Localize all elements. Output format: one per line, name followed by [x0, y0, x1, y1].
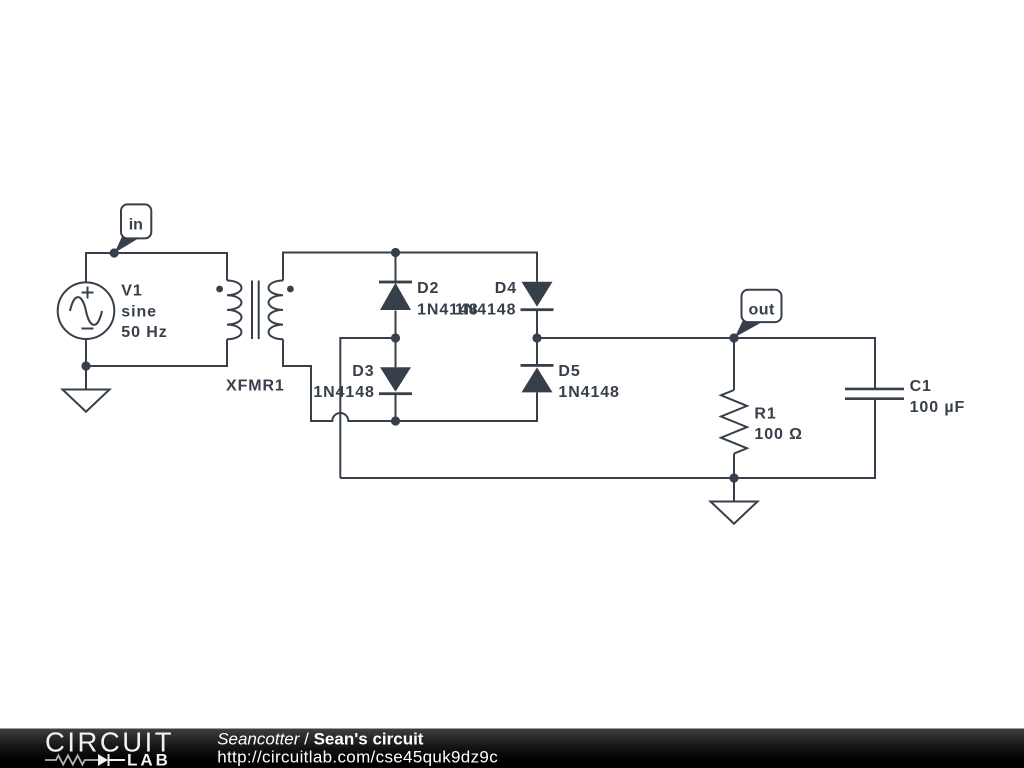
wire: D2 top stub	[395, 253, 397, 282]
net flag box: out	[742, 290, 782, 322]
node dot: D3 bottom rail	[391, 416, 400, 425]
wire: R1 bottom stub	[733, 454, 735, 502]
V1 plus sign	[82, 287, 94, 299]
wire: left-leg midpoint to bottom rail (x=340)	[340, 338, 395, 478]
wire: D4 bottom stub	[536, 311, 538, 338]
node dot: out midpoint D4-D5	[532, 333, 541, 342]
net flag tail: in	[115, 236, 137, 253]
footer bar	[0, 729, 1024, 768]
node dot: in node	[110, 248, 119, 257]
voltage source V1 circle	[58, 282, 115, 339]
svg-text:XFMR1: XFMR1	[226, 377, 285, 394]
wire: secondary bottom to lower AC rail with hop	[283, 339, 537, 421]
V1 minus sign	[82, 328, 94, 330]
node dot: out at R1	[729, 333, 738, 342]
diode D3 triangle (apex down)	[380, 367, 411, 392]
svg-text:D3: D3	[352, 363, 374, 380]
svg-text:100 µF: 100 µF	[910, 399, 966, 416]
svg-text:1N4148: 1N4148	[558, 384, 619, 401]
node dot: V1 bottom	[81, 361, 90, 370]
svg-text:V1: V1	[121, 283, 142, 300]
svg-text:LAB: LAB	[127, 750, 171, 768]
svg-text:R1: R1	[754, 405, 776, 422]
logo squiggle wire	[45, 755, 98, 764]
node dot: D2-D3 midpoint	[391, 333, 400, 342]
node dot: top rail at D2	[391, 248, 400, 257]
svg-text:out: out	[749, 302, 776, 319]
wire: out rail to C1 top	[537, 338, 875, 389]
svg-text:in: in	[129, 217, 143, 234]
svg-text:50 Hz: 50 Hz	[121, 324, 167, 341]
svg-text:http://circuitlab.com/cse45quk: http://circuitlab.com/cse45quk9dz9c	[217, 748, 498, 767]
ground (V1)	[63, 390, 110, 412]
transformer XFMR1 secondary winding	[269, 281, 284, 340]
diode D2 triangle (apex up)	[380, 283, 411, 310]
svg-text:sine: sine	[121, 303, 157, 320]
diode D5 triangle (apex up)	[522, 367, 553, 392]
wire: D2-D3 middle leg	[395, 311, 397, 368]
wire: transformer secondary top rail to D4	[283, 253, 537, 282]
wire: D3 bottom stub	[395, 393, 397, 421]
transformer primary phase dot	[216, 286, 223, 293]
transformer XFMR1 primary winding	[227, 281, 242, 340]
capacitor C1 plates	[845, 389, 904, 399]
ground (output)	[711, 502, 758, 524]
net flag tail: out	[735, 320, 760, 337]
node dot: R1 bottom rail	[729, 473, 738, 482]
diode D4 triangle (apex down)	[522, 282, 553, 307]
diode D4 cathode bar	[521, 308, 554, 311]
wire: transformer primary bottom to V1 bottom and ground stub	[86, 339, 227, 390]
svg-text:Seancotter / Sean's circuit: Seancotter / Sean's circuit	[217, 730, 424, 749]
svg-text:D5: D5	[558, 363, 580, 380]
wire: C1 bottom and ground rail	[340, 399, 875, 478]
svg-text:C1: C1	[910, 378, 932, 395]
logo squiggle diode	[98, 754, 108, 766]
wire: R1 top stub	[733, 338, 735, 390]
svg-text:D2: D2	[417, 280, 439, 297]
transformer core lines	[252, 281, 259, 340]
wire: D5 top stub	[536, 338, 538, 365]
svg-text:D4: D4	[495, 280, 517, 297]
svg-text:1N4148: 1N4148	[313, 384, 374, 401]
svg-text:100 Ω: 100 Ω	[754, 426, 802, 443]
transformer secondary phase dot	[287, 286, 294, 293]
diode D5 cathode bar	[521, 364, 554, 367]
V1 sine wave	[70, 297, 102, 325]
resistor R1 zigzag	[721, 390, 747, 454]
wire: V1 top to transformer primary top	[86, 253, 227, 283]
diode D2 cathode bar	[379, 281, 412, 284]
net flag box: in	[121, 204, 151, 238]
diode D3 cathode bar	[379, 392, 412, 395]
svg-text:1N4148: 1N4148	[455, 302, 516, 319]
